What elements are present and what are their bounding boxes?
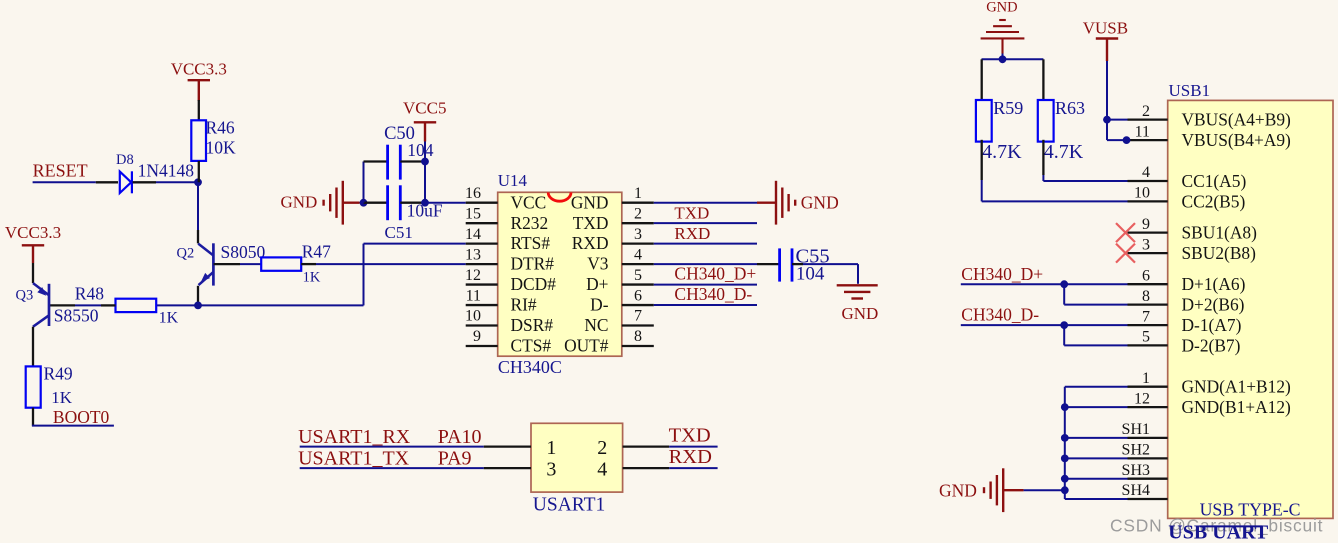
- pin Q3 collector: [32, 327, 34, 367]
- junction SH3 bus: [1061, 475, 1069, 483]
- ground symbol right of U14: [757, 181, 795, 225]
- svg-text:DCD#: DCD#: [511, 274, 557, 294]
- svg-text:3: 3: [1142, 236, 1150, 253]
- op-amp U14 body: [498, 192, 622, 356]
- svg-text:PA10: PA10: [438, 426, 482, 448]
- wire bus to pin 12: [1065, 406, 1128, 408]
- pin 4 of USB1: [1128, 180, 1168, 182]
- pin 12 of U14: [466, 283, 498, 285]
- power VCC3.3 top: [188, 80, 210, 101]
- svg-text:RTS#: RTS#: [511, 233, 551, 253]
- pin 11 of USB1: [1128, 139, 1168, 141]
- pin 4 of USART1: [623, 467, 670, 469]
- pin Q3 emitter: [32, 263, 34, 283]
- junction C50 right: [421, 158, 429, 166]
- pin R46 top: [198, 100, 200, 120]
- pin 16 of U14: [466, 202, 498, 204]
- svg-text:R232: R232: [511, 213, 549, 233]
- svg-text:USB UART: USB UART: [1168, 522, 1269, 543]
- svg-text:SH1: SH1: [1122, 421, 1150, 438]
- svg-text:C51: C51: [385, 223, 413, 242]
- no-connect X on SBU1: [1116, 223, 1135, 242]
- svg-text:1: 1: [546, 437, 556, 459]
- svg-text:2: 2: [634, 205, 642, 222]
- pin 9 of U14: [466, 345, 498, 347]
- svg-text:DTR#: DTR#: [511, 254, 555, 274]
- svg-text:RXD: RXD: [669, 446, 712, 468]
- wire VUSB to pin 11: [1107, 139, 1127, 141]
- svg-text:CH340_D-: CH340_D-: [674, 284, 752, 304]
- pin C55 left: [757, 263, 780, 265]
- wire C50 to C51 right: [424, 162, 426, 203]
- svg-text:104: 104: [796, 263, 825, 284]
- svg-text:RI#: RI#: [511, 295, 537, 315]
- wire node B right: [198, 304, 364, 306]
- pin 3 of USART1: [484, 467, 531, 469]
- pin 5 of U14: [622, 283, 654, 285]
- svg-text:GND(A1+B12): GND(A1+B12): [1182, 377, 1292, 397]
- svg-text:VUSB: VUSB: [1083, 19, 1128, 38]
- svg-text:5: 5: [634, 267, 642, 284]
- svg-text:NC: NC: [584, 315, 608, 335]
- wire bus to SH4: [1065, 498, 1128, 500]
- wire CH340_D+ net U14: [654, 284, 757, 286]
- wire C55 gnd vertical: [857, 264, 859, 284]
- wire R63 to CC1: [1042, 175, 1044, 181]
- svg-text:R49: R49: [44, 364, 73, 384]
- pin 4 of U14: [622, 263, 654, 265]
- svg-text:SH2: SH2: [1122, 442, 1150, 459]
- svg-text:1N4148: 1N4148: [138, 160, 195, 180]
- wire gnd junction right: [1003, 58, 1044, 60]
- junction D-1: [1060, 321, 1068, 329]
- svg-text:D+1(A6): D+1(A6): [1182, 274, 1246, 294]
- svg-text:6: 6: [634, 287, 642, 304]
- junction gnd R59 R63: [999, 55, 1007, 63]
- svg-text:R59: R59: [993, 98, 1023, 118]
- wire gnd bus vertical: [1064, 387, 1066, 499]
- junction SH1 bus: [1061, 434, 1069, 442]
- svg-text:1K: 1K: [303, 270, 321, 286]
- svg-text:CC1(A5): CC1(A5): [1182, 171, 1247, 191]
- pin 2 of U14: [622, 222, 654, 224]
- svg-text:15: 15: [465, 205, 481, 222]
- wire USART1_TX net: [300, 467, 484, 469]
- wire R47 to U14 DTR#: [316, 263, 466, 265]
- svg-text:GND: GND: [842, 304, 879, 323]
- svg-text:VBUS(B4+A9): VBUS(B4+A9): [1182, 130, 1292, 150]
- wire RXD net at USART1: [669, 467, 717, 469]
- svg-text:9: 9: [1142, 216, 1150, 233]
- svg-text:RESET: RESET: [33, 161, 88, 181]
- svg-text:R47: R47: [302, 242, 331, 262]
- svg-text:VBUS(A4+B9): VBUS(A4+B9): [1182, 110, 1292, 130]
- pin R63 bottom: [1042, 140, 1044, 175]
- ground symbol top right: [981, 20, 1025, 54]
- svg-text:R46: R46: [206, 118, 235, 138]
- resistor R63: [1038, 100, 1054, 142]
- svg-text:D-2(B7): D-2(B7): [1182, 335, 1241, 355]
- pin 6 of USB1: [1128, 283, 1168, 285]
- pin R47 right: [301, 263, 316, 265]
- pin 1 of USART1: [484, 445, 531, 447]
- pin diode D8 anode: [96, 181, 118, 183]
- svg-text:D+: D+: [586, 274, 608, 294]
- svg-text:1: 1: [1142, 370, 1150, 387]
- wire CC2 horizontal: [982, 200, 1128, 202]
- pin Q2 collector: [197, 230, 199, 243]
- svg-text:USB1: USB1: [1169, 81, 1211, 100]
- wire BOOT0 net: [32, 425, 114, 427]
- pin R49 bottom: [32, 408, 34, 426]
- junction gnd bus: [1061, 486, 1069, 494]
- svg-text:8: 8: [1142, 288, 1150, 305]
- pin 10 of U14: [466, 324, 498, 326]
- svg-text:GND: GND: [939, 480, 977, 500]
- svg-text:7: 7: [1142, 308, 1150, 325]
- svg-text:D-1(A7): D-1(A7): [1182, 315, 1242, 335]
- junction node B: [194, 302, 202, 310]
- svg-text:16: 16: [465, 185, 481, 202]
- resistor R46: [191, 120, 206, 161]
- pin C50 right: [400, 160, 425, 162]
- wire V3 to C55: [654, 263, 757, 265]
- svg-text:DSR#: DSR#: [511, 315, 554, 335]
- pin 8 of U14: [622, 345, 654, 347]
- wire C50 left vertical: [363, 162, 365, 203]
- svg-text:TXD: TXD: [674, 204, 709, 223]
- connector USB1 body: [1168, 100, 1333, 518]
- svg-text:VCC5: VCC5: [403, 99, 446, 118]
- pin Q2 emitter: [197, 286, 199, 306]
- svg-text:2: 2: [597, 437, 607, 459]
- svg-text:13: 13: [465, 246, 481, 263]
- capacitor C55: [780, 248, 792, 281]
- wire D+1 to pin 6: [1064, 283, 1127, 285]
- svg-text:PA9: PA9: [438, 447, 472, 469]
- pin 5 of USB1: [1128, 344, 1168, 346]
- wire node A to Q2 collector: [197, 182, 199, 230]
- svg-text:S8550: S8550: [54, 306, 99, 326]
- pin Q2 base: [214, 263, 240, 265]
- svg-text:4: 4: [634, 246, 642, 263]
- wire gnd stem blue: [1002, 54, 1004, 60]
- pin 7 of USB1: [1128, 324, 1168, 326]
- svg-text:D+2(B6): D+2(B6): [1182, 295, 1245, 315]
- svg-text:CH340C: CH340C: [498, 357, 562, 377]
- wire D-1 to pin 7: [1064, 324, 1127, 326]
- svg-text:11: 11: [466, 287, 481, 304]
- wire D- vertical: [1063, 325, 1065, 345]
- wire vertical to RTS# net: [363, 244, 365, 306]
- svg-text:USART1_TX: USART1_TX: [298, 447, 410, 469]
- svg-text:1K: 1K: [159, 310, 179, 327]
- svg-text:1: 1: [634, 185, 642, 202]
- svg-text:VCC: VCC: [511, 192, 547, 212]
- svg-text:V3: V3: [587, 254, 609, 274]
- transistor Q2: [198, 243, 213, 285]
- pin 1 of U14: [622, 202, 654, 204]
- power VUSB: [1096, 39, 1118, 62]
- pin R63 top: [1042, 59, 1044, 99]
- wire D+2 to pin 8: [1064, 304, 1127, 306]
- pin 9 of USB1: [1128, 231, 1168, 233]
- pin 8 of USB1: [1128, 303, 1168, 305]
- wire bus to pin 1: [1065, 386, 1128, 388]
- svg-text:GND: GND: [801, 193, 839, 213]
- wire VUSB to pin 2: [1107, 119, 1128, 121]
- junction pin 12 bus: [1061, 403, 1069, 411]
- ground symbol left: [324, 181, 359, 225]
- svg-text:5: 5: [1142, 329, 1150, 346]
- svg-text:S8050: S8050: [221, 242, 266, 262]
- svg-text:OUT#: OUT#: [564, 336, 609, 356]
- svg-text:RXD: RXD: [572, 233, 609, 253]
- pin 12 of USB1: [1128, 406, 1168, 408]
- svg-text:GND: GND: [986, 0, 1017, 16]
- wire VCC5 down: [424, 142, 426, 162]
- svg-text:SH3: SH3: [1122, 462, 1150, 479]
- junction SH2 bus: [1061, 455, 1069, 463]
- wire bus to SH2: [1065, 457, 1128, 459]
- svg-text:USART1_RX: USART1_RX: [298, 426, 411, 448]
- resistor R48: [116, 299, 157, 312]
- pin 7 of U14: [622, 324, 654, 326]
- wire TXD net at USART1: [669, 446, 717, 448]
- ground symbol below C55: [837, 285, 878, 298]
- svg-text:Q2: Q2: [177, 246, 195, 262]
- wire R59 to CC2: [981, 180, 983, 201]
- svg-text:10K: 10K: [206, 138, 237, 158]
- svg-text:VCC3.3: VCC3.3: [171, 59, 227, 78]
- wire USART1_RX net: [300, 446, 484, 448]
- svg-text:USART1: USART1: [533, 495, 606, 516]
- wire node B to R48: [156, 304, 198, 306]
- svg-text:3: 3: [546, 458, 556, 480]
- sheet name strike line: [1200, 525, 1263, 527]
- pin SH1 of USB1: [1128, 437, 1168, 439]
- pin C50 left: [364, 160, 388, 162]
- pin 13 of U14: [466, 263, 498, 265]
- svg-text:R48: R48: [75, 284, 104, 304]
- wire CC1 horizontal: [1043, 180, 1127, 182]
- pin C51 left: [364, 202, 388, 204]
- junction node A: [194, 178, 202, 186]
- pin R59 top: [981, 59, 983, 99]
- pin SH3 of USB1: [1128, 478, 1168, 480]
- svg-text:SBU2(B8): SBU2(B8): [1182, 243, 1257, 263]
- pin C55 right: [792, 263, 803, 265]
- wire RESET net: [33, 181, 96, 183]
- wire RXD net: [654, 243, 757, 245]
- wire CH340_D+ net USB: [961, 283, 1064, 285]
- junction D+1: [1060, 280, 1068, 288]
- pin 15 of U14: [466, 222, 498, 224]
- pin 10 of USB1: [1128, 200, 1168, 202]
- transistor Q3: [33, 283, 49, 327]
- capacitor C51: [388, 185, 401, 220]
- svg-text:12: 12: [465, 267, 481, 284]
- svg-text:RXD: RXD: [674, 224, 710, 243]
- svg-text:7: 7: [634, 308, 642, 325]
- wire gnd to C51: [359, 202, 364, 204]
- resistor R47: [261, 257, 301, 270]
- wire bus to SH1: [1065, 437, 1128, 439]
- pin diode D8 cathode: [133, 181, 156, 183]
- svg-text:12: 12: [1134, 390, 1150, 407]
- svg-text:CH340_D-: CH340_D-: [961, 305, 1039, 325]
- svg-text:GND: GND: [571, 192, 609, 212]
- svg-text:8: 8: [634, 328, 642, 345]
- svg-text:VCC3.3: VCC3.3: [5, 223, 61, 242]
- wire gnd junction left: [982, 58, 1003, 60]
- svg-text:D-: D-: [590, 295, 609, 315]
- pin 1 of USB1: [1128, 386, 1168, 388]
- diode D8: [120, 171, 132, 193]
- junction VUSB pin2: [1103, 116, 1111, 124]
- svg-text:2: 2: [1142, 103, 1150, 120]
- junction C51 right: [421, 199, 429, 207]
- svg-text:1K: 1K: [51, 388, 73, 407]
- pin Q3 base: [49, 304, 75, 306]
- pin 11 of U14: [466, 304, 498, 306]
- pin SH2 of USB1: [1128, 457, 1168, 459]
- U14 notch arc: [548, 192, 571, 201]
- svg-text:CH340_D+: CH340_D+: [961, 264, 1043, 284]
- pin 14 of U14: [466, 242, 498, 244]
- svg-text:4.7K: 4.7K: [1044, 141, 1084, 163]
- svg-text:6: 6: [1142, 267, 1150, 284]
- wire to U14 VCC: [425, 202, 466, 204]
- ground symbol bottom of USB: [984, 468, 1024, 512]
- pin 3 of USB1: [1128, 252, 1168, 254]
- pin R48 left: [101, 304, 116, 306]
- power VCC5: [414, 122, 436, 141]
- wire VUSB down: [1106, 61, 1108, 120]
- no-connect X on SBU2: [1116, 244, 1135, 263]
- wire Q2 base to R47: [240, 263, 261, 265]
- svg-text:SBU1(A8): SBU1(A8): [1182, 223, 1258, 243]
- wire CH340_D- net USB: [961, 324, 1064, 326]
- svg-text:3: 3: [634, 226, 642, 243]
- power VCC3.3 left: [22, 245, 44, 263]
- svg-text:4.7K: 4.7K: [982, 141, 1022, 163]
- capacitor C50: [388, 145, 401, 180]
- svg-text:4: 4: [597, 458, 607, 480]
- svg-text:4: 4: [1142, 164, 1150, 181]
- wire Q3 base to R48: [75, 304, 101, 306]
- pin 3 of U14: [622, 242, 654, 244]
- wire U14 GND to ground: [654, 202, 757, 204]
- svg-text:D8: D8: [116, 152, 134, 168]
- svg-text:TXD: TXD: [573, 213, 609, 233]
- wire D+ vertical: [1063, 284, 1065, 304]
- svg-text:10: 10: [465, 308, 481, 325]
- svg-text:SH4: SH4: [1122, 482, 1150, 499]
- wire C55 to gnd corner: [803, 263, 858, 265]
- svg-text:CTS#: CTS#: [511, 336, 552, 356]
- pin SH4 of USB1: [1128, 498, 1168, 500]
- svg-text:14: 14: [465, 226, 481, 243]
- pin R46 bottom: [198, 161, 200, 182]
- svg-text:U14: U14: [498, 171, 528, 190]
- svg-text:10: 10: [1134, 185, 1150, 202]
- pin 6 of U14: [622, 304, 654, 306]
- pin 2 of USART1: [623, 445, 670, 447]
- wire CH340_D- net U14: [654, 304, 757, 306]
- svg-text:R63: R63: [1055, 98, 1085, 118]
- pin R59 bottom: [981, 140, 983, 180]
- svg-text:104: 104: [407, 140, 434, 160]
- pin 2 of USB1: [1128, 118, 1168, 120]
- resistor R49: [26, 366, 41, 407]
- wire TXD net: [654, 222, 757, 224]
- wire diode to node A: [156, 181, 198, 183]
- svg-text:11: 11: [1135, 123, 1150, 140]
- resistor R59: [976, 100, 992, 142]
- svg-text:GND: GND: [281, 193, 318, 212]
- junction C51 left: [360, 199, 368, 207]
- svg-text:CH340_D+: CH340_D+: [674, 264, 756, 284]
- svg-text:CC2(B5): CC2(B5): [1182, 191, 1246, 211]
- wire bus to SH3: [1065, 478, 1128, 480]
- svg-text:Q3: Q3: [16, 287, 34, 303]
- connector USART1 body: [531, 423, 623, 492]
- svg-text:TXD: TXD: [669, 425, 711, 447]
- junction pin 11: [1123, 136, 1131, 144]
- svg-text:BOOT0: BOOT0: [53, 407, 110, 427]
- wire VUSB to pin 11 vertical: [1106, 120, 1108, 141]
- pin C51 right: [400, 202, 425, 204]
- wire D-2 to pin 5: [1064, 344, 1127, 346]
- wire to U14 RTS#: [364, 243, 466, 245]
- wire gnd to bus: [1024, 489, 1065, 491]
- svg-text:9: 9: [473, 328, 481, 345]
- svg-text:GND(B1+A12): GND(B1+A12): [1182, 397, 1292, 417]
